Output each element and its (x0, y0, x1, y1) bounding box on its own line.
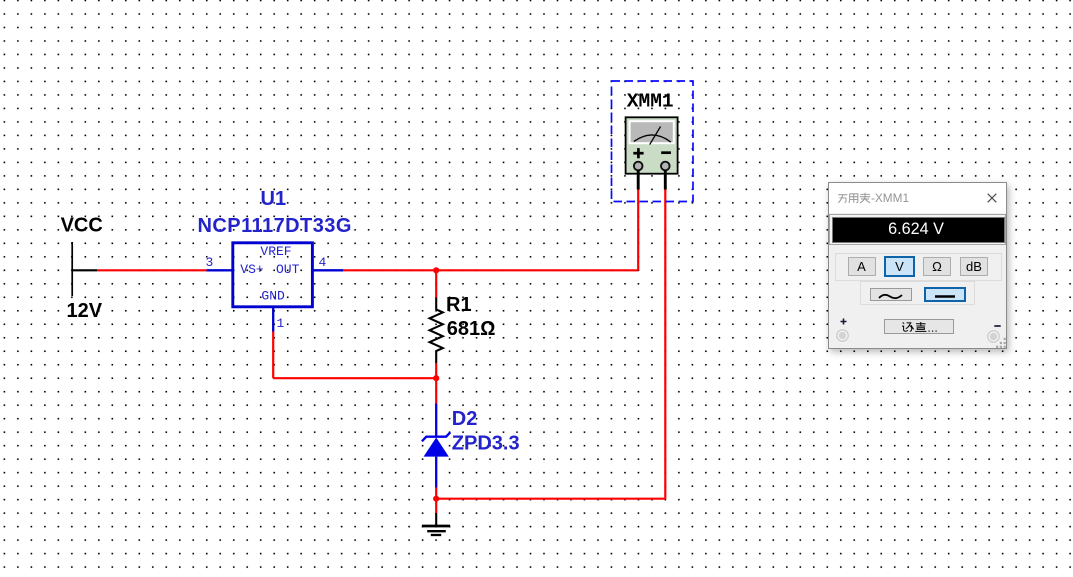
terminal plus (634, 162, 643, 171)
minus terminal jack (986, 329, 1001, 344)
svg-text:VS+: VS+ (240, 262, 264, 277)
minus terminal label (994, 324, 1001, 328)
lead minus (664, 170, 667, 190)
wire VCC to U1 pin3 (97, 269, 207, 271)
svg-text:XMM1: XMM1 (627, 90, 674, 112)
wire junction3 to XMM1 minus (436, 189, 665, 499)
button DC (selected) (924, 287, 966, 302)
measurement display (829, 214, 1006, 245)
svg-text:GND: GND (261, 288, 285, 303)
resistor R1 (430, 298, 443, 364)
power VCC symbol (71, 242, 97, 296)
plus mark (633, 148, 643, 158)
pin 4 stub (312, 255, 343, 270)
svg-text:VREF: VREF (260, 244, 291, 259)
mode group box (835, 253, 1002, 281)
svg-text:ZPD3.3: ZPD3.3 (452, 433, 520, 455)
button A (848, 257, 876, 276)
meter body (626, 117, 678, 173)
svg-text:3: 3 (206, 255, 214, 270)
wire junction3 to ground (435, 499, 437, 513)
svg-text:4: 4 (319, 255, 327, 270)
selection dashed box (612, 81, 694, 202)
window title (837, 191, 909, 205)
wire U1 pin4 to XMM1 plus (343, 189, 638, 271)
svg-text:1: 1 (277, 316, 285, 331)
wire junction2 to U1 pin1 (273, 332, 436, 379)
ground (422, 513, 450, 535)
svg-text:VCC: VCC (61, 215, 103, 237)
wire junction to R1 (435, 270, 437, 297)
button AC (870, 288, 912, 301)
node junction bottom (433, 496, 439, 502)
plus terminal jack (835, 328, 850, 343)
close button (987, 193, 997, 203)
svg-text:OUT: OUT (276, 262, 300, 277)
resize grip (996, 336, 1006, 348)
pin 3 stub (206, 255, 234, 270)
pin 1 stub (273, 306, 284, 331)
wire D2 to junction 3 (435, 488, 437, 499)
wire R1 to junction 2 (435, 363, 437, 378)
wire junction2 to D2 (435, 378, 437, 403)
title bar (829, 183, 1006, 213)
node junction top (433, 267, 439, 273)
node junction mid (433, 375, 439, 381)
svg-text:U1: U1 (261, 188, 287, 210)
lead plus (637, 170, 640, 190)
terminal minus (661, 162, 670, 171)
zener diode D2 (422, 404, 450, 488)
button V (selected) (884, 256, 915, 277)
svg-text:R1: R1 (446, 294, 472, 316)
button ohm (923, 257, 951, 276)
multimeter XMM1 icon (612, 81, 694, 202)
meter needle (650, 126, 661, 144)
waveform group box (860, 281, 975, 305)
plus terminal label (840, 318, 847, 325)
svg-text:D2: D2 (452, 408, 478, 430)
op-amp U1 regulator box (233, 243, 313, 307)
meter display (630, 121, 674, 143)
multimeter panel window (828, 182, 1007, 349)
settings button (884, 319, 954, 334)
minus mark (661, 151, 671, 154)
button dB (960, 257, 988, 276)
svg-text:12V: 12V (67, 300, 103, 322)
svg-text:NCP1117DT33G: NCP1117DT33G (198, 215, 352, 237)
meter scale arc (634, 135, 671, 142)
svg-text:681Ω: 681Ω (447, 318, 496, 340)
